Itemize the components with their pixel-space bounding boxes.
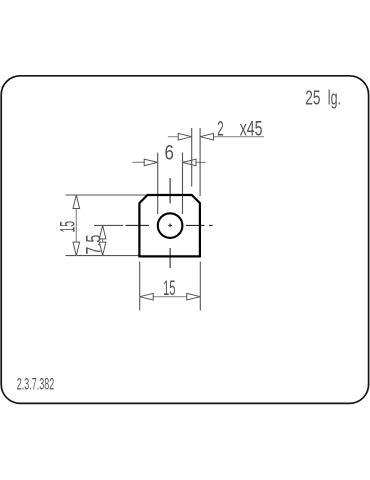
- center line vertical (hole axis): [169, 178, 171, 268]
- dimension 15 bottom dimension line: [140, 296, 201, 298]
- dimension 6 arrowheads: [144, 159, 158, 166]
- dimension 6 extension lines: [158, 153, 183, 215]
- dimension 15 left arrowheads: [73, 195, 80, 209]
- dimension 6 dimension line: [132, 161, 205, 163]
- dimension 7.5 dimension line: [102, 225, 104, 255]
- dimension 15 bottom extension lines: [140, 262, 201, 311]
- svg-text:2.3.7.382: 2.3.7.382: [17, 374, 54, 393]
- dimension 15 left dimension line: [75, 195, 77, 256]
- dimension 15 left extension lines: [66, 195, 147, 256]
- svg-text:lg.: lg.: [328, 88, 341, 110]
- svg-text:x45: x45: [240, 117, 263, 140]
- center line horizontal (hole axis): [126, 224, 213, 226]
- hole circle: [158, 213, 183, 238]
- drawing sheet border frame: [1, 76, 368, 404]
- svg-text:6: 6: [165, 142, 174, 165]
- dimension 7.5 extension line: [94, 224, 123, 226]
- svg-text:25: 25: [305, 88, 320, 110]
- svg-text:15: 15: [57, 221, 80, 233]
- dimension 2 x45 dimension line: [168, 136, 264, 138]
- dimension 15 bottom arrowheads: [140, 293, 154, 300]
- dimension 2 x45 arrowheads: [178, 133, 192, 140]
- dimension 7.5 arrowheads: [99, 225, 106, 239]
- dimension 2 x45 extension lines: [192, 128, 200, 196]
- svg-text:15: 15: [163, 277, 175, 300]
- svg-text:7.5: 7.5: [83, 235, 106, 255]
- svg-text:2: 2: [217, 117, 224, 140]
- part outline with chamfered top corners: [139, 195, 200, 256]
